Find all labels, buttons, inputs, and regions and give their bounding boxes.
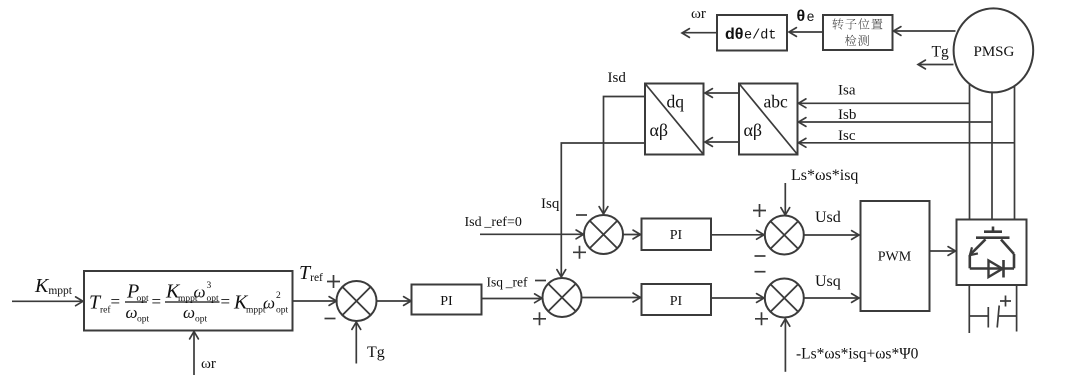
sign plus at capacitor — [1000, 296, 1011, 307]
svg-text:opt: opt — [195, 314, 208, 324]
wire: Isd_ref=0 into sum S3 — [480, 233, 583, 235]
block d(theta-e)/dt — [717, 15, 787, 51]
block PI2 (d-axis current PI) — [642, 219, 712, 251]
svg-text:Usd: Usd — [815, 209, 841, 226]
generator PMSG — [954, 8, 1034, 92]
wire: omega-r output arrow — [683, 32, 717, 34]
svg-text:=: = — [152, 292, 162, 311]
svg-text:Isq: Isq — [541, 196, 560, 212]
sign plus at S1 — [327, 275, 340, 288]
sign minus at S1 — [325, 318, 336, 320]
wire: alpha current abc to dq — [706, 92, 739, 94]
wire: DC bus left leg — [968, 285, 970, 333]
glyph 子 — [845, 19, 856, 30]
svg-text:PI: PI — [670, 294, 683, 309]
block dq/alpha-beta transform — [645, 84, 704, 155]
svg-text:opt: opt — [137, 314, 150, 324]
svg-text:=: = — [111, 292, 121, 311]
wire: DC bus right leg — [1016, 285, 1018, 332]
wire: Tg into sum S1 from below — [355, 324, 357, 364]
block rotor-position-detection (Chinese) — [823, 15, 893, 50]
svg-text:θ: θ — [797, 8, 806, 25]
wire: Isc tap into abc block — [800, 142, 1015, 144]
wire: phase a vertical from PMSG to converter — [969, 85, 971, 220]
summing junction S1 (torque) — [337, 281, 377, 321]
glyph 置 — [871, 19, 882, 29]
svg-text:Isb: Isb — [838, 107, 856, 123]
svg-text:Isd: Isd — [608, 70, 627, 86]
svg-text:PWM: PWM — [878, 250, 912, 265]
wire: Isb tap into abc block — [800, 121, 993, 123]
wire: Kmppt input arrow into equation box — [12, 300, 82, 302]
svg-text:αβ: αβ — [744, 120, 763, 140]
sign minus at S5 — [755, 271, 766, 273]
equation text Tref = Popt/wopt = Kmppt*wopt^3/wopt = Kmppt*wopt^2 — [89, 281, 289, 325]
svg-text:Tg: Tg — [932, 44, 949, 61]
block PWM — [861, 201, 930, 311]
glyph 测 — [858, 35, 869, 46]
wire: Isq_ref from PI1 to sum S2 — [482, 298, 542, 300]
svg-text:Tg: Tg — [367, 344, 385, 361]
svg-text:ω: ω — [126, 303, 138, 322]
svg-text:abc: abc — [764, 92, 789, 112]
svg-text:αβ: αβ — [650, 120, 669, 140]
wire: Isq from dq block down to sum S2 — [561, 143, 645, 276]
wire: PI2 output to sum S4 — [711, 234, 763, 236]
summing junction S3 (d-current) — [584, 215, 623, 254]
svg-text:2: 2 — [276, 291, 281, 301]
svg-text:Isc: Isc — [838, 128, 856, 144]
wire: Tg arrow from PMSG — [919, 64, 954, 66]
svg-text:ω: ω — [263, 294, 275, 313]
wire: -Ls*ws*isq+ws*Psi0 feed into sum S5 from below — [784, 320, 786, 372]
wire: Isd from dq block down to sum S3 — [604, 97, 646, 214]
sign plus at S3 — [573, 246, 586, 259]
svg-text:Isd _ref=0: Isd _ref=0 — [465, 215, 522, 230]
wire: PWM to converter — [930, 250, 955, 252]
wire: Usd from sum S4 to PWM — [804, 234, 858, 236]
wire: phase b vertical from PMSG to converter — [991, 92, 993, 220]
summing junction S5 (Usq comp) — [765, 279, 804, 318]
wire: phase c vertical from PMSG to converter — [1014, 86, 1016, 220]
wire: sum S2 to PI controller 3 — [582, 297, 640, 299]
wire: PMSG to rotor-position-detection — [895, 30, 956, 32]
block converter (machine-side rectifier) — [957, 220, 1027, 286]
svg-text:Usq: Usq — [815, 273, 841, 290]
svg-text:-Ls*ωs*isq+ωs*Ψ0: -Ls*ωs*isq+ωs*Ψ0 — [796, 346, 919, 363]
arrowhead on IGBT emitter — [970, 247, 978, 255]
svg-text:PI: PI — [670, 228, 683, 243]
svg-text:PMSG: PMSG — [974, 44, 1015, 60]
svg-text:Isq _ref: Isq _ref — [487, 275, 528, 290]
glyph 位 — [858, 18, 869, 29]
svg-text:3: 3 — [207, 281, 212, 291]
wire: Ls*ws*isq feed into sum S4 from top — [784, 183, 786, 214]
sign plus at S5 — [755, 312, 768, 325]
svg-text:dθ: dθ — [725, 26, 743, 43]
svg-text:ω: ω — [194, 283, 206, 302]
wire: sum S1 to PI controller 1 — [377, 300, 411, 302]
svg-text:Tref: Tref — [299, 262, 323, 284]
sign minus at S4 — [755, 255, 766, 257]
wire: sum S3 to PI controller 2 — [623, 234, 640, 236]
svg-text:opt: opt — [276, 306, 289, 316]
svg-text:dq: dq — [667, 92, 685, 112]
glyph 转 — [832, 18, 843, 29]
block PI1 (speed/torque PI) — [412, 285, 482, 315]
block PI3 (q-axis current PI) — [642, 284, 712, 315]
svg-text:Kmppt: Kmppt — [34, 275, 73, 297]
svg-text:PI: PI — [440, 294, 453, 309]
svg-text:opt: opt — [137, 294, 150, 304]
svg-text:Isa: Isa — [838, 83, 856, 99]
summing junction S4 (Usd comp) — [765, 216, 804, 255]
svg-text:e/dt: e/dt — [744, 29, 776, 44]
sign minus at S2 — [535, 280, 546, 282]
summing junction S2 (q-current) — [543, 278, 582, 317]
svg-text:ω: ω — [183, 303, 195, 322]
diode D1 in converter — [989, 261, 1003, 278]
wire: beta current abc to dq — [706, 141, 739, 143]
block abc/alpha-beta transform — [739, 84, 798, 155]
wire: Usq from sum S5 to PWM — [804, 297, 858, 299]
sign plus at S2 — [533, 312, 546, 325]
wire: omega-r input into equation box bottom — [193, 333, 195, 375]
svg-text:=: = — [221, 292, 231, 311]
svg-text:ωr: ωr — [691, 6, 706, 22]
svg-text:e: e — [807, 11, 815, 26]
wire: theta-e from rotor box to d(theta)/dt — [790, 31, 823, 33]
wire: Tref from equation box to sum S1 — [293, 300, 336, 302]
wire: PI3 output to sum S5 — [711, 297, 763, 299]
sign minus at S3 — [576, 214, 587, 216]
svg-text:ωr: ωr — [201, 356, 216, 372]
sign plus at S4 — [753, 204, 766, 217]
capacitor C (DC link) — [969, 306, 1016, 328]
svg-text:opt: opt — [207, 294, 220, 304]
wire: Isa tap into abc block — [800, 102, 970, 104]
equation block Tref=Popt/wopt — [84, 271, 293, 331]
glyph 检 — [845, 35, 856, 46]
svg-text:Ls*ωs*isq: Ls*ωs*isq — [791, 167, 858, 184]
transistor IGBT symbol inside converter — [970, 227, 1014, 269]
